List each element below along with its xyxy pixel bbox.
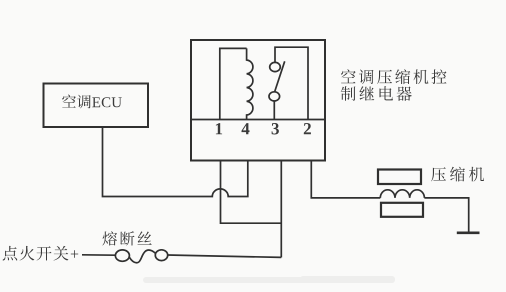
wire fuse to pin3 junction bbox=[168, 255, 282, 257]
wire pin2 down and right to compressor clutch coil bbox=[311, 161, 380, 198]
switch fixed contact (upper circle) bbox=[270, 62, 281, 71]
label 熔断丝 (fuse) bbox=[102, 231, 151, 245]
relay internal terminal line bbox=[191, 119, 325, 121]
wire ECU pin to relay pin 4 (with hop over pin-1 wire) bbox=[103, 127, 248, 196]
wire coil to ground bbox=[424, 198, 468, 232]
relay outer box (A/C compressor control relay) bbox=[191, 40, 325, 161]
fuse element (wavy wire) bbox=[129, 250, 155, 263]
A/C ECU box bbox=[44, 84, 149, 128]
switch movable arm (diagonal) bbox=[275, 61, 285, 91]
label 空调压缩机控 (line 1) bbox=[341, 69, 447, 84]
label 制继电器 (line 2) bbox=[341, 86, 412, 101]
pin label 1 bbox=[216, 123, 222, 134]
pin label 4 bbox=[242, 123, 250, 134]
label 空调ECU inside ECU box bbox=[62, 95, 122, 109]
compressor upper block bbox=[378, 170, 421, 185]
wire pin1 down and right to junction with pin3 wire bbox=[221, 161, 282, 224]
compressor lower block bbox=[381, 203, 423, 217]
label 点火开关+ (ignition switch +) bbox=[3, 246, 79, 261]
label 压缩机 (compressor) bbox=[431, 167, 484, 182]
compressor clutch coil bbox=[380, 190, 424, 198]
wire lower circle to pin 3 bbox=[273, 101, 275, 120]
pin label 3 bbox=[272, 123, 279, 135]
wire switch top bar to pin2 bbox=[275, 47, 308, 119]
wire pin1 vertical + coil top bar bbox=[220, 48, 247, 119]
switch contact (lower circle) bbox=[269, 92, 280, 101]
ground symbol bbox=[457, 232, 480, 235]
faint watermark bbox=[143, 276, 395, 283]
relay coil (between pins 1 and 4) bbox=[247, 48, 253, 119]
fuse right terminal circle bbox=[155, 250, 167, 261]
wire pin3 down to fuse line bbox=[280, 161, 282, 258]
fuse left terminal circle bbox=[115, 250, 129, 261]
wire ignition to fuse bbox=[82, 254, 115, 256]
pin label 2 bbox=[304, 123, 311, 134]
